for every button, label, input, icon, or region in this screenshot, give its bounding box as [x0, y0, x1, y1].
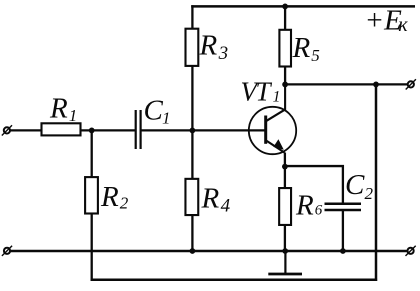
label R4	[201, 183, 231, 217]
capacitor C2 plates	[325, 204, 362, 210]
wire C1 to base	[141, 129, 267, 131]
label C2	[345, 169, 374, 203]
terminal input top-left	[2, 125, 12, 135]
resistor R5	[279, 30, 291, 67]
node C2 bottom junction	[340, 248, 346, 254]
resistor R6	[279, 188, 291, 225]
node output feedback junction	[373, 82, 379, 88]
svg-text:2: 2	[365, 184, 374, 203]
wire emitter branch to R6	[284, 153, 286, 252]
transistor VT1 circle	[249, 107, 296, 154]
wire R3/R4 vertical branch	[191, 5, 193, 251]
node emitter junction	[282, 164, 288, 170]
svg-text:2: 2	[120, 194, 129, 213]
svg-text:+E: +E	[365, 5, 403, 37]
svg-text:VT: VT	[241, 77, 273, 107]
wire input line left	[10, 129, 136, 131]
svg-text:R: R	[201, 183, 220, 215]
svg-text:R: R	[100, 181, 119, 213]
label R5	[292, 32, 320, 65]
wire emitter to C2	[285, 166, 343, 204]
svg-text:R: R	[292, 32, 311, 64]
terminal output top-right	[406, 79, 416, 89]
ground stem	[284, 251, 286, 274]
node base divider junction	[190, 127, 196, 133]
wire collector output to terminal	[285, 83, 408, 85]
svg-text:R: R	[49, 93, 68, 125]
label C1	[144, 95, 171, 128]
svg-text:R: R	[295, 190, 314, 222]
wire R2 branch vertical	[91, 130, 93, 281]
resistor R3	[186, 29, 199, 66]
transistor VT1 collector stroke	[267, 86, 286, 121]
wire feedback vertical right	[375, 84, 378, 281]
wire R5-collector vertical branch	[284, 5, 286, 85]
svg-text:C: C	[345, 169, 365, 201]
svg-text:4: 4	[221, 196, 231, 217]
resistor R1	[42, 123, 81, 135]
label VT1	[241, 77, 281, 107]
svg-text:1: 1	[273, 89, 281, 106]
transistor VT1 base bar	[264, 116, 267, 144]
wire top +Ek rail	[191, 5, 415, 8]
label R1	[49, 93, 77, 126]
resistor R2	[85, 177, 98, 213]
svg-text:R: R	[199, 30, 218, 62]
label R3	[199, 30, 229, 65]
terminal bottom-right	[406, 246, 416, 256]
wire C2 bottom to rail	[342, 210, 344, 252]
resistor R4	[185, 179, 198, 215]
transistor VT1 emitter arrow	[273, 139, 283, 150]
node R6 ground junction	[282, 248, 288, 254]
svg-text:1: 1	[162, 109, 171, 128]
ground bar	[268, 273, 302, 276]
svg-text:к: к	[398, 14, 408, 36]
node top rail R5 junction	[282, 4, 288, 10]
wire bottom feedback line	[91, 279, 378, 282]
transistor VT1 emitter stroke	[267, 141, 285, 153]
node R4 bottom junction	[190, 248, 196, 254]
label +Ek supply	[365, 5, 409, 37]
wire bottom ground rail	[10, 250, 408, 253]
svg-text:3: 3	[218, 43, 229, 64]
label R2	[100, 181, 129, 213]
capacitor C1 plates	[136, 110, 141, 149]
svg-text:1: 1	[69, 106, 78, 125]
node input/R2 junction	[89, 127, 95, 133]
label R6	[295, 190, 323, 222]
node collector junction	[282, 82, 288, 88]
svg-text:5: 5	[311, 46, 320, 65]
terminal bottom-left	[2, 246, 12, 256]
svg-text:6: 6	[315, 203, 323, 219]
svg-text:C: C	[144, 95, 164, 127]
